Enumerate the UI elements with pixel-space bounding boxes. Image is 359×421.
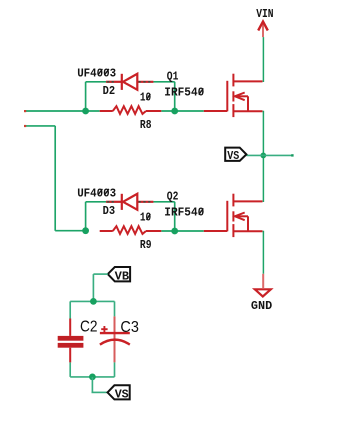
junction cap bottom <box>89 374 96 381</box>
svg-text:UF4003: UF4003 <box>77 187 116 201</box>
svg-text:C3: C3 <box>120 319 139 336</box>
wire VB to rail <box>93 273 108 275</box>
capacitor C3 polarized <box>100 316 130 362</box>
svg-text:IRF540: IRF540 <box>164 85 204 99</box>
svg-text:R9: R9 <box>140 238 152 252</box>
wire D2 row right <box>153 81 175 83</box>
wire Q1 source down <box>262 111 264 202</box>
net label VS bottom <box>108 385 130 401</box>
svg-text:D2: D2 <box>103 84 116 98</box>
wire gate2 vertical <box>54 126 56 231</box>
wire VIN down <box>262 37 264 82</box>
junction R9 left <box>82 227 89 234</box>
wire D2 branch up <box>85 82 87 111</box>
svg-text:GND: GND <box>251 299 272 313</box>
wire VS tag to junction <box>246 154 263 156</box>
wire D3 branch down <box>174 202 176 231</box>
plus sign C3 <box>101 326 107 332</box>
wire cap bottom rail <box>70 376 114 378</box>
wire D3 row right <box>153 201 175 203</box>
svg-text:Q1: Q1 <box>167 70 179 84</box>
resistor R9 <box>100 226 162 234</box>
wire cap top rail <box>70 300 114 302</box>
junction R8 left <box>82 108 89 115</box>
wire VB vertical <box>92 274 94 301</box>
net label VS middle <box>225 148 246 163</box>
svg-text:VS: VS <box>115 388 129 402</box>
net label VB <box>108 267 130 284</box>
pin tick marks D2 <box>107 81 150 83</box>
svg-text:Q2: Q2 <box>167 190 179 204</box>
ground GND <box>251 274 272 313</box>
wire R8 right to gate lead <box>161 110 204 112</box>
junction node VS <box>260 153 266 159</box>
wire R9 right to gate lead <box>161 230 204 232</box>
wire D3 branch up <box>85 202 87 231</box>
wire gate2 to junction <box>55 230 85 232</box>
pin tick marks D3 <box>107 201 150 203</box>
wire C3 bottom <box>114 362 116 377</box>
wire VS stub right <box>263 154 293 156</box>
diode D3 <box>106 194 153 210</box>
svg-text:10: 10 <box>140 91 151 105</box>
slashed zeros UF4003 top <box>98 69 203 100</box>
svg-text:C2: C2 <box>80 319 98 336</box>
svg-text:R8: R8 <box>140 118 152 132</box>
wire D2 row left <box>86 81 107 83</box>
wire C3 top <box>114 301 116 316</box>
power VIN <box>256 7 273 37</box>
junction cap top <box>90 298 97 305</box>
wire VS to tag <box>92 391 108 393</box>
svg-text:VB: VB <box>115 270 130 284</box>
junction R9 right <box>171 228 178 235</box>
slashed zeros UF4003 bottom <box>98 189 203 220</box>
wire stub end tip <box>291 154 293 156</box>
svg-text:UF4003: UF4003 <box>77 67 116 81</box>
wire D3 row left <box>86 201 107 203</box>
wire C2 bottom <box>69 362 71 377</box>
wire gate1 horizontal <box>25 110 100 112</box>
transistor Q2 IRF540 <box>204 194 263 237</box>
wire Q2 source down <box>262 231 264 274</box>
resistor R8 <box>100 106 162 114</box>
svg-text:VIN: VIN <box>256 7 273 21</box>
svg-text:10: 10 <box>140 211 151 225</box>
wire end dot left2 <box>24 125 26 127</box>
svg-text:IRF540: IRF540 <box>164 205 204 219</box>
svg-text:D3: D3 <box>103 204 116 218</box>
wire gate2 horizontal top <box>25 125 55 127</box>
capacitor C2 <box>58 319 84 363</box>
transistor Q1 IRF540 <box>204 74 263 117</box>
diode D2 <box>106 74 153 90</box>
svg-text:VS: VS <box>227 149 239 163</box>
wire C2 top <box>69 301 71 318</box>
wire D2 branch down <box>174 82 176 111</box>
wire end dot left1 <box>24 110 26 112</box>
wire VS vertical down <box>91 377 93 393</box>
junction R8 right <box>171 108 178 115</box>
